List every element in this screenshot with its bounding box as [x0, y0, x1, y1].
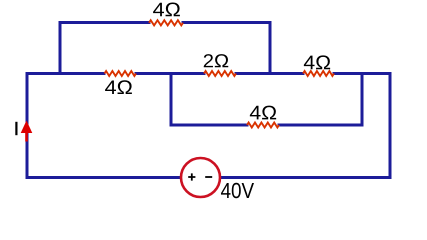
label I (current)	[15, 122, 17, 135]
wire: left vertical side	[26, 74, 29, 178]
label 4Ω (top branch resistor)	[153, 3, 164, 16]
wire: top branch right segment	[183, 21, 270, 24]
label 2Ω (middle rail center resistor)	[204, 54, 213, 67]
wire: vertical from middle rail to lower branch (left)	[170, 74, 173, 126]
wire: right vertical side	[389, 74, 392, 178]
label 4Ω (lower branch resistor)	[250, 106, 261, 120]
resistor 4Ω (middle rail, right)	[303, 71, 334, 76]
label 4Ω (middle rail right resistor)	[304, 56, 315, 70]
voltage source plus sign	[188, 173, 195, 180]
wire: lower branch right segment	[279, 124, 362, 127]
label 4Ω (middle rail left resistor)	[105, 81, 116, 94]
resistor 4Ω (middle rail, left)	[105, 71, 137, 76]
wire: middle rail segment 3	[236, 72, 303, 75]
wire: middle rail segment 1	[27, 72, 104, 75]
wire: bottom rail left segment	[27, 176, 181, 179]
wire: bottom rail right segment	[220, 176, 390, 179]
wire: top branch left segment	[60, 21, 149, 24]
resistor 2Ω (middle rail, center)	[204, 71, 236, 76]
wire: lower branch left segment	[171, 124, 247, 127]
resistor 4Ω (top branch)	[149, 20, 183, 25]
wire: vertical from middle rail to lower branch (right)	[361, 74, 364, 126]
wire: vertical from top branch down at right	[269, 23, 272, 74]
current arrow I (red, pointing up)	[21, 121, 33, 142]
resistor 4Ω (lower branch)	[247, 123, 279, 128]
wire: vertical from top branch down at left	[59, 23, 62, 74]
voltage source V1 circle	[181, 158, 220, 197]
label 40V (source value)	[221, 183, 230, 198]
voltage source minus sign	[205, 176, 212, 178]
wire: middle rail segment 4	[334, 72, 390, 75]
wire: middle rail segment 2	[136, 72, 204, 75]
